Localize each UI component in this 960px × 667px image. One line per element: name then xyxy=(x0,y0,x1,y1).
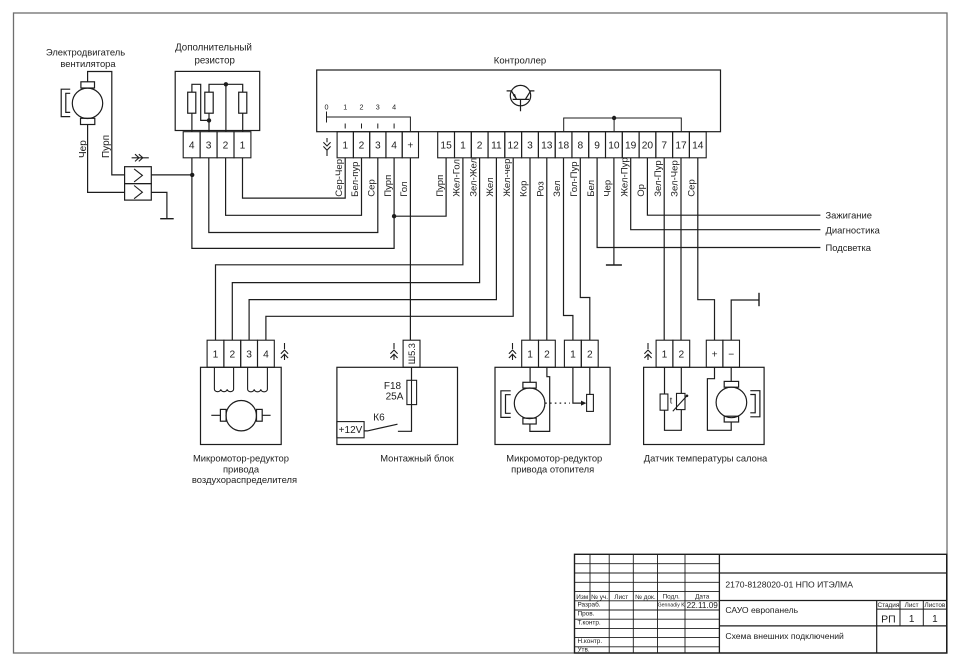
svg-text:1: 1 xyxy=(932,614,938,625)
internal link pins 18-10-17 xyxy=(564,116,682,132)
svg-text:4: 4 xyxy=(391,141,397,152)
wire label Пурп xyxy=(435,175,446,197)
svg-text:Изм: Изм xyxy=(576,594,588,601)
svg-text:1: 1 xyxy=(527,350,533,361)
heater pot pin 2 xyxy=(581,340,598,367)
svg-text:0: 0 xyxy=(325,103,329,112)
sensor box xyxy=(644,367,765,444)
svg-text:1: 1 xyxy=(460,141,466,152)
wire pin4 to pin15 xyxy=(394,158,446,216)
controller pin 9 xyxy=(589,132,606,158)
resistor block box xyxy=(175,71,260,130)
svg-text:14: 14 xyxy=(692,141,704,152)
svg-text:4: 4 xyxy=(392,103,396,112)
label Зажигание xyxy=(826,210,872,221)
svg-text:4: 4 xyxy=(189,141,195,152)
wire Жел-Пур to Диагностика xyxy=(631,158,821,230)
wire label Зел-Пур xyxy=(653,160,664,197)
resistor pin 4 xyxy=(183,132,200,158)
svg-text:Пурп: Пурп xyxy=(383,175,394,197)
resistor pin 3 xyxy=(200,132,217,158)
wire Зел-Жел to distributor pin2 xyxy=(232,158,479,340)
wire label Чер xyxy=(78,140,89,158)
svg-text:1: 1 xyxy=(909,614,915,625)
heater pot pin 1 xyxy=(564,340,581,367)
air distributor box xyxy=(201,367,282,444)
svg-text:Датчик температуры салона: Датчик температуры салона xyxy=(644,453,768,464)
svg-text:Жел-чер: Жел-чер xyxy=(502,159,513,197)
position coil 1-2 xyxy=(214,367,233,391)
resistor R3 xyxy=(239,92,247,113)
svg-text:РП: РП xyxy=(881,613,896,625)
wire Кор to heater pin1 xyxy=(529,158,531,340)
distributor pin 3 xyxy=(241,340,258,367)
label temperature sensor xyxy=(644,453,768,464)
svg-text:Подл.: Подл. xyxy=(663,593,680,600)
resistor R4 sensor xyxy=(660,394,668,410)
wire label Пурп xyxy=(101,135,112,158)
wire R1 bottom xyxy=(191,113,193,132)
wire Жел to distributor pin3 xyxy=(249,158,496,340)
wire pin2 up xyxy=(225,84,227,131)
wire Зел to heater pot pin1 xyxy=(564,158,573,340)
wire label Жел-Гол xyxy=(452,159,463,197)
+12V box xyxy=(337,422,364,438)
svg-text:1: 1 xyxy=(343,103,347,112)
svg-text:привода отопителя: привода отопителя xyxy=(511,464,594,475)
symbol shielded bundle controller xyxy=(323,138,330,156)
svg-text:Дополнительный: Дополнительный xyxy=(175,43,252,54)
svg-text:2: 2 xyxy=(223,141,229,152)
title block grid xyxy=(575,554,947,653)
symbol shielded bundle distributor xyxy=(281,343,288,360)
svg-text:2: 2 xyxy=(360,103,364,112)
svg-text:Разраб.: Разраб. xyxy=(578,601,601,609)
svg-text:Дата: Дата xyxy=(695,593,710,600)
label controller xyxy=(494,56,546,67)
controller box xyxy=(317,70,721,132)
svg-text:№ док.: № док. xyxy=(635,594,656,601)
svg-text:2: 2 xyxy=(678,350,684,361)
svg-text:11: 11 xyxy=(491,141,502,152)
wire fuse to contact xyxy=(398,405,412,432)
title block text xyxy=(576,580,946,654)
controller pin 14 xyxy=(689,132,706,158)
wire resistor pin2 to controller pin2 xyxy=(226,158,362,216)
wire Сер to sensor plus xyxy=(698,158,715,340)
chassis end bar xyxy=(758,293,760,306)
controller pin 19 xyxy=(622,132,639,158)
distributor pin 4 xyxy=(258,340,275,367)
svg-text:Кор: Кор xyxy=(519,181,530,197)
svg-text:22.11.09: 22.11.09 xyxy=(687,601,719,610)
svg-text:Микромотор-редуктор: Микромотор-редуктор xyxy=(193,453,289,464)
wire sensor pin1 to resistor xyxy=(664,367,666,394)
controller pin 8 xyxy=(572,132,589,158)
svg-text:Бел-пур: Бел-пур xyxy=(350,161,361,196)
wire Зел-Чер to sensor pin2 xyxy=(680,158,682,340)
svg-text:Микромотор-редуктор: Микромотор-редуктор xyxy=(506,453,602,464)
switch position marks 0-4 xyxy=(325,103,411,132)
svg-text:Сер-Чер: Сер-Чер xyxy=(334,159,345,197)
wire Бел to Подсветка xyxy=(597,158,820,248)
svg-text:+12V: +12V xyxy=(339,425,363,436)
wire Гол-Пур to heater pot pin2 xyxy=(580,158,590,340)
svg-text:Пурп: Пурп xyxy=(101,135,112,158)
motor M3 heater xyxy=(501,382,545,424)
svg-text:+: + xyxy=(712,350,718,361)
symbol shielded bundle heater xyxy=(509,343,516,360)
svg-text:воздухораспределителя: воздухораспределителя xyxy=(192,474,297,485)
wire fan black xyxy=(88,125,125,193)
controller pin 7 xyxy=(656,132,673,158)
svg-text:Утв.: Утв. xyxy=(578,647,590,654)
wire pot pin1 wiper xyxy=(573,367,583,403)
wire fan purple xyxy=(88,72,125,175)
wire heater pin1 to motor xyxy=(529,367,531,382)
label Диагностика xyxy=(826,225,881,236)
wire label Гол-Пур xyxy=(569,161,580,196)
heater pin 2 xyxy=(539,340,556,367)
controller pin 12 xyxy=(505,132,522,158)
svg-text:Листов: Листов xyxy=(925,602,946,609)
svg-text:Чер: Чер xyxy=(78,140,89,158)
svg-text:17: 17 xyxy=(675,141,687,152)
svg-text:К6: К6 xyxy=(373,413,385,424)
wire resistor to thermistor xyxy=(665,410,682,431)
relay contact K6 xyxy=(364,413,397,431)
wire label Жел xyxy=(485,177,496,196)
wire label Зел-Чер xyxy=(670,160,681,197)
wire connector to resistor pin4 xyxy=(151,173,194,177)
wire Жел-чер to distributor pin4 xyxy=(266,158,513,340)
label Подсветка xyxy=(826,242,872,253)
label heater motor xyxy=(506,453,602,475)
wire label Кор xyxy=(519,181,530,197)
wire label Пурп xyxy=(383,175,394,197)
svg-text:10: 10 xyxy=(608,141,620,152)
wire label Сер xyxy=(687,179,698,197)
wire label Роз xyxy=(536,181,547,197)
svg-text:Сер: Сер xyxy=(367,179,378,197)
svg-text:Жел: Жел xyxy=(485,177,496,196)
svg-text:Жел-Гол: Жел-Гол xyxy=(452,159,463,197)
svg-text:1: 1 xyxy=(662,350,668,361)
controller pin 4 xyxy=(386,132,402,158)
svg-text:3: 3 xyxy=(375,141,381,152)
controller pin + xyxy=(402,132,418,158)
label mounting block xyxy=(380,453,454,464)
svg-text:Ор: Ор xyxy=(636,184,647,197)
wire label Гол xyxy=(399,182,410,197)
wire label Бел-пур xyxy=(350,161,361,196)
wire label Сер-Чер xyxy=(334,159,345,197)
sensor pin − xyxy=(723,340,740,367)
svg-text:Диагностика: Диагностика xyxy=(826,225,881,236)
resistor R1 xyxy=(188,92,196,113)
svg-text:2: 2 xyxy=(587,350,593,361)
motor M4 aspirator xyxy=(716,381,760,422)
svg-text:Лист: Лист xyxy=(614,594,628,601)
svg-text:15: 15 xyxy=(440,141,452,152)
svg-text:№ уч.: № уч. xyxy=(591,594,608,601)
svg-text:Монтажный блок: Монтажный блок xyxy=(380,453,454,464)
wire resistor pin1 to controller pin1 xyxy=(243,158,346,198)
controller pin 2 xyxy=(353,132,369,158)
svg-text:+: + xyxy=(407,141,413,152)
svg-text:Подсветка: Подсветка xyxy=(826,242,872,253)
controller pin 10 xyxy=(606,132,623,158)
svg-text:3: 3 xyxy=(376,103,380,112)
resistor pin 1 xyxy=(234,132,251,158)
heater pin 1 xyxy=(522,340,539,367)
sensor pin 1 xyxy=(656,340,673,367)
wire Ш5.3 to fuse xyxy=(411,367,413,380)
svg-text:18: 18 xyxy=(558,141,570,152)
wire label Жел-чер xyxy=(502,159,513,197)
distributor pin 1 xyxy=(207,340,224,367)
svg-text:Зел-Пур: Зел-Пур xyxy=(653,160,664,197)
svg-text:8: 8 xyxy=(577,141,583,152)
wire Гол to Ш5.3 xyxy=(409,158,411,340)
thermistor RK1 xyxy=(670,393,689,411)
svg-text:2: 2 xyxy=(359,141,365,152)
svg-text:Бел: Бел xyxy=(586,180,597,197)
svg-text:19: 19 xyxy=(625,141,637,152)
svg-text:Пурп: Пурп xyxy=(435,175,446,197)
svg-text:−: − xyxy=(728,350,734,361)
svg-text:Контроллер: Контроллер xyxy=(494,56,546,67)
controller pin 1 xyxy=(455,132,472,158)
resistor pin 2 xyxy=(217,132,234,158)
svg-text:3: 3 xyxy=(206,141,212,152)
svg-text:13: 13 xyxy=(541,141,553,152)
svg-text:2170-8128020-01 НПО ИТЭЛМА: 2170-8128020-01 НПО ИТЭЛМА xyxy=(725,580,853,590)
svg-text:20: 20 xyxy=(642,141,654,152)
svg-text:резистор: резистор xyxy=(195,56,235,67)
svg-text:4: 4 xyxy=(263,350,269,361)
symbol shielded bundle block xyxy=(390,343,397,360)
wire sensor plus to motor xyxy=(707,367,731,430)
svg-text:Гол: Гол xyxy=(399,182,410,197)
mechanical link dashed xyxy=(545,402,570,404)
wire connector to ground xyxy=(151,192,167,218)
svg-text:2: 2 xyxy=(477,141,483,152)
transistor U1 xyxy=(507,85,535,111)
svg-text:Чер: Чер xyxy=(603,180,614,197)
wire R2 bottom xyxy=(208,113,210,132)
svg-text:Н.контр.: Н.контр. xyxy=(578,638,603,645)
ground fan xyxy=(160,218,174,220)
svg-text:Роз: Роз xyxy=(536,181,547,197)
svg-text:12: 12 xyxy=(508,141,520,152)
wire Ор to Зажигание xyxy=(647,158,820,215)
wire Роз to heater pin2 xyxy=(546,158,548,340)
wire R2-R3 top xyxy=(209,82,243,92)
sensor pin + xyxy=(706,340,723,367)
svg-text:2: 2 xyxy=(544,350,550,361)
svg-text:Зел-Чер: Зел-Чер xyxy=(670,160,681,197)
label air distributor xyxy=(192,453,297,486)
heater box xyxy=(495,367,610,444)
ground controller xyxy=(606,264,622,266)
wire label Зел xyxy=(552,180,563,196)
wire heater pin2 to motor xyxy=(530,367,550,431)
wire resistor pin3 to controller pin3 xyxy=(209,158,378,233)
wire label Зел-Жел xyxy=(468,158,479,197)
fuse F18 25A xyxy=(407,380,417,404)
wire pot pin2 xyxy=(589,367,591,394)
svg-text:Гол-Пур: Гол-Пур xyxy=(569,161,580,196)
svg-text:Зажигание: Зажигание xyxy=(826,210,872,221)
svg-text:2: 2 xyxy=(229,350,235,361)
controller pin 20 xyxy=(639,132,656,158)
label F18 25A xyxy=(384,381,404,403)
controller pin 2 xyxy=(471,132,488,158)
svg-text:привода: привода xyxy=(223,464,260,475)
svg-text:Gennadiy K: Gennadiy K xyxy=(658,603,686,609)
svg-text:Стадия: Стадия xyxy=(878,602,900,609)
svg-text:1: 1 xyxy=(240,141,246,152)
controller pin 13 xyxy=(538,132,555,158)
svg-text:3: 3 xyxy=(527,141,533,152)
wire resistor pin4 to controller pin4 xyxy=(192,158,396,249)
wire Зел-Пур to sensor pin1 xyxy=(663,158,665,340)
symbol shielded bundle sensor xyxy=(644,343,651,360)
svg-text:F18: F18 xyxy=(384,381,402,392)
svg-text:Сер: Сер xyxy=(687,179,698,197)
svg-text:3: 3 xyxy=(246,350,252,361)
wire sensor minus to motor xyxy=(730,367,732,381)
connector Ш5.3 xyxy=(403,340,420,367)
wire label Бел xyxy=(586,180,597,197)
distributor pin 2 xyxy=(224,340,241,367)
wire R3 bottom xyxy=(242,113,244,132)
wire sensor minus stub xyxy=(731,300,759,340)
svg-text:25A: 25A xyxy=(386,392,404,403)
svg-text:Ш5.3: Ш5.3 xyxy=(407,343,417,364)
label fan motor xyxy=(46,47,125,70)
svg-text:1: 1 xyxy=(213,350,219,361)
wire Чер to ground xyxy=(613,158,615,265)
svg-text:Пров.: Пров. xyxy=(578,610,595,617)
wire R1 hook xyxy=(192,84,211,122)
controller pin 3 xyxy=(522,132,539,158)
svg-text:9: 9 xyxy=(594,141,600,152)
symbol twisted pair right xyxy=(132,154,149,161)
wire label Ор xyxy=(636,184,647,197)
svg-text:Зел-Жел: Зел-Жел xyxy=(468,158,479,197)
sensor pin 2 xyxy=(673,340,690,367)
svg-text:Т.контр.: Т.контр. xyxy=(578,620,601,627)
controller pin 18 xyxy=(555,132,572,158)
svg-text:САУО европанель: САУО европанель xyxy=(725,605,798,615)
svg-text:1: 1 xyxy=(342,141,348,152)
svg-text:Зел: Зел xyxy=(552,180,563,196)
wiper arrowhead xyxy=(581,401,586,406)
label additional resistor xyxy=(175,43,252,67)
controller pin 1 xyxy=(337,132,353,158)
connector X1 fan xyxy=(125,167,152,200)
wire label Жел-Пур xyxy=(619,157,630,196)
wire Жел-Гол to distributor pin1 xyxy=(216,158,463,340)
wire label Сер xyxy=(367,179,378,197)
controller pin 15 xyxy=(438,132,455,158)
svg-text:вентилятора: вентилятора xyxy=(60,58,116,69)
motor M2 distributor xyxy=(211,401,270,431)
position coil 3-4 xyxy=(248,367,268,391)
svg-text:Схема внешних подключений: Схема внешних подключений xyxy=(725,631,844,641)
resistor R2 xyxy=(205,92,213,113)
mounting block box xyxy=(337,367,458,444)
svg-text:1: 1 xyxy=(570,350,576,361)
controller pin 11 xyxy=(488,132,505,158)
wire sensor pin2 to thermistor xyxy=(680,367,682,393)
potentiometer heater xyxy=(587,394,594,411)
svg-text:Лист: Лист xyxy=(905,602,919,609)
wire label Чер xyxy=(603,180,614,197)
svg-text:7: 7 xyxy=(661,141,667,152)
controller pin 3 xyxy=(370,132,386,158)
svg-text:Электродвигатель: Электродвигатель xyxy=(46,47,125,58)
svg-text:Жел-Пур: Жел-Пур xyxy=(619,157,630,196)
controller pin 17 xyxy=(673,132,690,158)
motor M1 fan xyxy=(61,82,103,125)
